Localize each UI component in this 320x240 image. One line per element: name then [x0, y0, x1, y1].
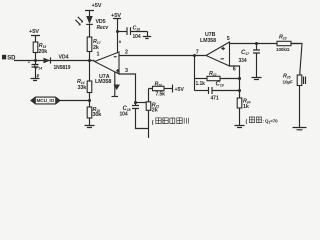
- op-amp U7B LM358: [196, 32, 230, 66]
- svg-text:100kΩ: 100kΩ: [276, 47, 290, 52]
- ground (R24): [235, 126, 245, 128]
- svg-text:1.1k: 1.1k: [196, 81, 206, 87]
- svg-text:LM358: LM358: [95, 79, 111, 85]
- resistor R17 2k: [87, 37, 101, 61]
- resistor R15 20k: [33, 42, 47, 61]
- net label #SD: [2, 55, 16, 62]
- power +5V (R20): [173, 85, 185, 94]
- svg-text:2: 2: [125, 49, 128, 55]
- svg-text:104: 104: [120, 112, 128, 118]
- capacitor C17 334: [239, 44, 261, 78]
- svg-text:VD4: VD4: [59, 55, 69, 61]
- resistor R24 1k: [237, 98, 250, 125]
- wire: U7A pin2 to U7B output net: [119, 49, 206, 55]
- node: +5V / pin8 junction: [116, 30, 127, 33]
- resistor R21 2k: [146, 101, 159, 138]
- node: MCU_IO junction: [88, 99, 91, 102]
- svg-text:1k: 1k: [243, 104, 249, 110]
- photodiode VD5: [75, 16, 109, 37]
- power +5V (left, above R15): [29, 29, 40, 42]
- resistor R14 33k: [77, 61, 92, 101]
- svg-text:2k: 2k: [152, 108, 158, 114]
- node: feedback junction on output net: [193, 54, 196, 91]
- svg-text:(: (: [152, 120, 154, 126]
- ground (C17): [252, 78, 262, 80]
- svg-text:MCU_IO: MCU_IO: [37, 98, 55, 103]
- svg-text:(: (: [246, 119, 248, 125]
- svg-text:6: 6: [233, 66, 236, 72]
- node: junction diode/R17/R14/op-amp: [88, 59, 91, 62]
- svg-text:1N5819: 1N5819: [54, 65, 71, 71]
- note text bottom right: [246, 117, 279, 125]
- ground (C16): [143, 32, 151, 39]
- svg-text:+5V: +5V: [175, 87, 185, 93]
- ground (C14): [31, 79, 40, 81]
- capacitor C19 471 (feedback): [195, 82, 240, 102]
- ground (R25): [293, 128, 307, 130]
- wire: U7B pin5 output line: [227, 36, 300, 44]
- ground (U7A pin 4): [112, 72, 121, 97]
- node: pin3 network junction: [134, 101, 149, 104]
- resistor R23 100k: [276, 34, 291, 52]
- resistor R22 1.1k (feedback): [195, 71, 240, 87]
- svg-text:104: 104: [133, 34, 141, 40]
- power +5V (above photodiode VD5): [85, 3, 102, 16]
- power +5V (above C16): [111, 13, 121, 31]
- resistor R16 30k: [87, 101, 101, 126]
- svg-text:1μ: 1μ: [35, 72, 40, 77]
- svg-text:3: 3: [125, 68, 128, 74]
- resistor R25 10k: [283, 73, 306, 127]
- net label threshold (Chinese): [152, 118, 189, 126]
- node: C17 junction: [255, 42, 258, 45]
- wire: right rail down: [291, 44, 302, 76]
- svg-text:5: 5: [227, 36, 230, 42]
- svg-text:7.5k: 7.5k: [156, 92, 166, 98]
- svg-text:7: 7: [196, 49, 199, 55]
- wire: U7B pin6 to feedback rail: [230, 66, 242, 98]
- port MCU_IO: [31, 97, 90, 104]
- svg-text:2k: 2k: [93, 45, 99, 51]
- wire: U7A pin3: [119, 68, 136, 103]
- svg-text:33k: 33k: [78, 85, 87, 91]
- op-amp U7A LM358: [95, 52, 120, 86]
- capacitor C16 104: [127, 25, 148, 40]
- svg-text:10μF: 10μF: [283, 80, 294, 85]
- svg-text:1: 1: [97, 52, 100, 58]
- diode VD4 1N5819: [44, 55, 71, 71]
- svg-text:LM358: LM358: [200, 38, 216, 44]
- capacitor C18 104: [120, 103, 149, 129]
- wire: #SD line to op-amp: [14, 60, 95, 62]
- capacitor C14 1u: [28, 60, 42, 79]
- svg-text:Recv: Recv: [97, 25, 110, 31]
- resistor R20 7.5k: [149, 81, 173, 102]
- svg-text:+5V: +5V: [29, 29, 39, 35]
- svg-text:+5V: +5V: [92, 3, 102, 9]
- pin 8 supply stem into U7A: [118, 32, 122, 53]
- ground (R16): [85, 126, 95, 128]
- svg-text:334: 334: [239, 58, 247, 64]
- svg-text:20k: 20k: [39, 49, 48, 55]
- svg-text:471: 471: [211, 96, 219, 102]
- node: junction at R15/C1: [34, 59, 37, 62]
- svg-text:30k: 30k: [93, 112, 102, 118]
